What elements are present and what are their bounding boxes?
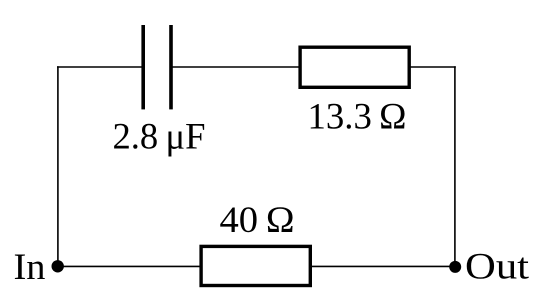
wire bottom-left horizontal (In to resistor R2) bbox=[58, 265, 201, 267]
resistor R1 body bbox=[300, 47, 409, 87]
wire bottom-right horizontal (resistor R2 to Out) bbox=[311, 265, 455, 267]
resistor R2 body bbox=[201, 246, 310, 285]
node Out junction dot bbox=[449, 261, 461, 273]
wire left vertical (In to top branch) bbox=[57, 66, 59, 266]
svg-text:Out: Out bbox=[465, 246, 530, 287]
svg-text:In: In bbox=[14, 247, 46, 288]
wire right vertical (top branch to Out) bbox=[454, 66, 456, 267]
svg-text:40 Ω: 40 Ω bbox=[220, 200, 295, 241]
svg-text:2.8 μF: 2.8 μF bbox=[113, 116, 206, 157]
wire top-left horizontal (In branch to capacitor) bbox=[57, 66, 143, 68]
wire capacitor to resistor R1 bbox=[171, 66, 300, 68]
svg-text:13.3 Ω: 13.3 Ω bbox=[308, 97, 407, 138]
node In junction dot bbox=[52, 260, 64, 272]
capacitor C1 left plate bbox=[141, 25, 145, 109]
capacitor C1 right plate bbox=[169, 25, 173, 109]
wire resistor R1 to right corner bbox=[409, 66, 456, 68]
